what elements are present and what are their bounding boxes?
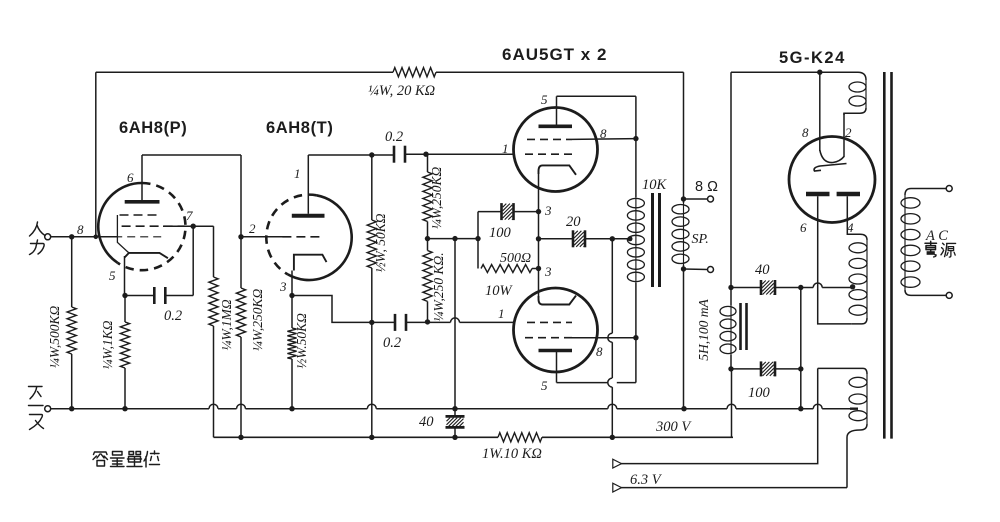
wire T1 primary bottom (635, 283, 637, 338)
svg-text:A C: A C (925, 228, 948, 244)
tube U2 grid dashes (282, 236, 320, 238)
svg-text:300 V: 300 V (655, 419, 692, 435)
svg-text:8: 8 (600, 126, 607, 141)
svg-text:¼W,1KΩ: ¼W,1KΩ (100, 320, 115, 369)
node U2 cathode (289, 293, 294, 298)
terminal AC bottom (946, 292, 952, 298)
tube U1 grid1 dashes (120, 214, 158, 216)
wire C4 right lead (514, 211, 539, 213)
tube V1 plate bar (539, 125, 573, 129)
resistor R-NFB 20K (393, 68, 436, 77)
wire U1 pin5 lead (124, 256, 126, 296)
coil T2 heater winding (818, 368, 867, 374)
node U2 grid junction (238, 234, 243, 239)
svg-text:0.2: 0.2 (164, 308, 182, 324)
wire heater 6.3V line2 (621, 487, 847, 489)
wire R6 leads (427, 239, 429, 251)
wire B+ rail 300V (214, 436, 499, 438)
tube V2 grid2 dashes (525, 337, 572, 339)
arrow 6.3V line1 (613, 459, 622, 468)
wire R5 leads (427, 154, 429, 172)
wire V3 pin6 lead (818, 196, 852, 324)
tube U1 grid bracket (117, 215, 128, 253)
tube V3 plate left (806, 192, 830, 197)
wire bias bracket (477, 212, 479, 269)
svg-text:3: 3 (544, 203, 552, 218)
resistor R3 50K cathode (287, 328, 296, 359)
node B+ CT drop (610, 236, 615, 241)
tube U1 plate bar (125, 200, 160, 204)
capacitor C5 20uF (572, 230, 575, 247)
tube U1 cathode (125, 253, 168, 258)
resistor R-load 250K (236, 288, 245, 337)
svg-text:100: 100 (489, 225, 512, 241)
svg-text:5H,100 mA: 5H,100 mA (696, 299, 711, 361)
tube U1 envelope dashed arc (118, 183, 186, 270)
wire V3 pin8 riser (819, 72, 821, 151)
svg-text:6: 6 (800, 220, 807, 235)
capacitor C6 40uF (760, 280, 763, 295)
wire filter common gnd (800, 288, 802, 409)
tube U2 cathode (294, 255, 327, 271)
svg-text:1W.10 KΩ: 1W.10 KΩ (482, 446, 542, 462)
svg-text:8: 8 (802, 125, 809, 140)
node gnd filter (798, 406, 803, 411)
node feedback input junction (94, 235, 99, 240)
capacitor C7 100uF (760, 361, 763, 376)
wire pin7 to bypass cap (192, 226, 194, 295)
coil T1 secondary (683, 203, 685, 265)
wire U2 pin1 riser (307, 155, 309, 214)
wire T1 secondary leads (683, 199, 685, 203)
node gnd 50K (289, 406, 294, 411)
svg-text:2: 2 (845, 125, 852, 140)
label ground kanji アース (29, 387, 43, 399)
wire V3 pin2 riser (843, 113, 845, 157)
tube V2 cathode (539, 296, 577, 305)
wire bottom coupler (372, 321, 395, 323)
wire R2 top lead (124, 296, 126, 323)
svg-text:1: 1 (498, 306, 505, 321)
wire choke out to B+ rail (730, 369, 733, 437)
capacitor C2 0.2 top coupler (393, 146, 396, 163)
wire U1 pin6 to U2 grid (141, 155, 143, 200)
node T1 center tap (628, 236, 633, 241)
tube V3 envelope (789, 137, 875, 223)
resistor R2 1K cathode (120, 322, 129, 368)
node pin8 V3 (817, 70, 822, 75)
tube V3 plate right (837, 192, 860, 197)
svg-text:5: 5 (541, 378, 548, 393)
terminal input (45, 234, 51, 240)
svg-text:10K: 10K (642, 177, 668, 193)
capacitor C4 100uF cathode (500, 203, 503, 220)
wire filament top rail (731, 71, 820, 73)
svg-text:½W, 50KΩ: ½W, 50KΩ (373, 213, 388, 272)
node follower at B+ (369, 435, 374, 440)
wire C7 row (731, 368, 761, 370)
wire cathode to C1 (125, 295, 154, 297)
node C7 neg (798, 366, 803, 371)
node bias bracket (475, 236, 480, 241)
svg-text:¼W,1MΩ: ¼W,1MΩ (219, 299, 234, 351)
node choke out (728, 366, 733, 371)
node U1 cathode (122, 293, 127, 298)
svg-text:6.3 V: 6.3 V (630, 472, 663, 488)
svg-text:20: 20 (566, 214, 581, 230)
terminal speaker minus (708, 267, 714, 273)
node coupler join (369, 320, 374, 325)
node C8 at B+ (452, 435, 457, 440)
resistor R6 250K lower (423, 251, 432, 302)
wire cathode common (538, 174, 540, 298)
tube V1 grid2 dashes (525, 153, 572, 155)
wire R4 bottom lead (371, 268, 373, 322)
wire speaker top (684, 198, 708, 200)
svg-text:5G-K24: 5G-K24 (779, 49, 846, 67)
node pin7 (191, 224, 196, 229)
wire V3 pin4 lead (847, 196, 860, 234)
node k3 (536, 266, 541, 271)
node U2 plate junction (369, 152, 374, 157)
wire feedback left drop (95, 72, 97, 237)
wire ground rail (51, 408, 209, 410)
svg-text:¼W,250KΩ: ¼W,250KΩ (250, 289, 265, 352)
tube V1 cathode (539, 165, 577, 174)
core T2 (883, 72, 886, 439)
wire rectifier DC drop (730, 72, 732, 287)
svg-text:1: 1 (294, 166, 301, 181)
tube V1 grid1 dashes (527, 138, 572, 140)
wire C8 leads (454, 409, 456, 417)
node HV tap (850, 284, 855, 289)
wire speaker gnd (683, 269, 685, 409)
tube V2 envelope (514, 288, 598, 372)
wire input to grid (51, 236, 118, 238)
wire R3 bottom lead (291, 359, 293, 409)
svg-text:¼W, 20 KΩ: ¼W, 20 KΩ (368, 83, 435, 99)
resistor R1 500K grid (67, 307, 76, 354)
tube U1 envelope solid arc (98, 183, 142, 263)
tube U2 envelope solid arc (288, 195, 352, 280)
node speaker top (681, 196, 686, 201)
node k1 (536, 209, 541, 214)
svg-text:8: 8 (77, 222, 84, 237)
svg-text:5: 5 (541, 92, 548, 107)
wire U2 pin3 lead (291, 271, 293, 296)
wire R7 right lead (532, 268, 539, 270)
node DC out (728, 285, 733, 290)
svg-text:¼W,250 KΩ.: ¼W,250 KΩ. (431, 252, 446, 321)
wire C5 right lead (585, 238, 629, 240)
tube U1 grid3 dashes (114, 236, 161, 238)
svg-text:0.2: 0.2 (383, 335, 401, 351)
capacitor C1 0.2 bypass (153, 287, 156, 304)
svg-text:8 Ω: 8 Ω (695, 179, 718, 195)
terminal AC top (946, 186, 952, 192)
wire V2 pin8 lead (572, 337, 636, 339)
core L1 (739, 303, 742, 350)
wire heater 6.3V line1 (621, 368, 818, 463)
coil T2 HV winding (860, 234, 867, 240)
coil L1 choke (730, 305, 732, 355)
coil T1 primary (635, 197, 637, 283)
core T1 (651, 193, 654, 287)
wire V1 pin8 lead (572, 138, 636, 141)
node C6 neg (798, 285, 803, 290)
svg-text:6AH8(P): 6AH8(P) (119, 119, 187, 137)
svg-text:¼W,250KΩ: ¼W,250KΩ (429, 167, 444, 230)
node gnd speaker (681, 406, 686, 411)
resistor R7 500 ohm 10W (481, 265, 532, 273)
wire top coupler (372, 154, 394, 156)
terminal ground (45, 406, 51, 412)
wire speaker bottom (684, 268, 708, 271)
node gnd 1K (122, 406, 127, 411)
wire heater CT to gnd (850, 408, 858, 410)
node grid divider mid (425, 236, 430, 241)
wire screen 1M to B+ (213, 226, 215, 277)
svg-text:SP.: SP. (692, 232, 709, 247)
wire plate load 250K (240, 237, 242, 288)
capacitor C3 0.2 bottom coupler (394, 314, 397, 331)
node gnd 500K (69, 406, 74, 411)
capacitor C8 40uF main filter (446, 415, 465, 418)
svg-text:6: 6 (127, 170, 134, 185)
node input junction (69, 234, 74, 239)
svg-text:7: 7 (186, 208, 193, 223)
svg-text:5: 5 (109, 268, 116, 283)
svg-text:0.2: 0.2 (385, 129, 403, 145)
arrow 6.3V line2 (613, 483, 622, 492)
wire bias rail (428, 238, 479, 240)
node pin8 V1 (633, 136, 638, 141)
resistor R5 250K upper (423, 172, 432, 222)
node B+ rail join (610, 435, 615, 440)
node gnd bias (452, 406, 457, 411)
coil T2 AC primary (905, 189, 949, 196)
terminal speaker plus (708, 196, 714, 202)
wire R2 bottom lead (124, 368, 126, 409)
svg-text:6AU5GT x 2: 6AU5GT x 2 (502, 45, 607, 64)
wire R4 top lead (371, 155, 373, 220)
svg-text:100: 100 (748, 385, 771, 401)
wire U2 pin2 lead (241, 236, 284, 238)
tube U1 grid2 dashes (122, 225, 185, 227)
wire C5 left lead (539, 238, 574, 240)
label input kanji 入力 (30, 222, 46, 236)
tube V2 grid1 dashes (527, 321, 572, 323)
wire U1 pin7 lead (163, 225, 214, 227)
label capacity kanji 容量單位 (93, 452, 108, 466)
wire CT feed to B+ rail (611, 239, 613, 333)
node speaker bottom (681, 266, 686, 271)
node k2 (536, 236, 541, 241)
svg-text:10W: 10W (485, 283, 514, 299)
svg-text:3: 3 (544, 264, 552, 279)
wire V1 pin5 route (556, 96, 558, 124)
resistor R4 50K follower (367, 220, 376, 268)
wire V2 pin5 route (556, 352, 558, 383)
wire R1 bottom lead (71, 354, 73, 409)
wire feedback top (96, 71, 393, 73)
wire C4 left lead (478, 211, 502, 213)
node coupler bottom (425, 319, 430, 324)
svg-text:3: 3 (279, 279, 287, 294)
svg-text:6AH8(T): 6AH8(T) (266, 119, 333, 137)
tube V2 plate bar (539, 349, 573, 353)
wire U2 cathode to couplers (292, 296, 372, 323)
wire R3 top lead (291, 296, 293, 329)
svg-text:500Ω: 500Ω (500, 251, 531, 266)
svg-text:8: 8 (596, 344, 603, 359)
svg-text:2: 2 (249, 221, 256, 236)
label AC kanji 電源 (925, 241, 937, 245)
node 250K at B+ (238, 435, 243, 440)
svg-text:40: 40 (419, 414, 434, 430)
svg-text:1: 1 (502, 141, 509, 156)
node coupler top right (423, 152, 428, 157)
resistor R-drop 10K 1W (498, 433, 542, 442)
tube U2 plate bar (292, 214, 325, 218)
wire bias to ground (454, 239, 456, 409)
wire T1 primary top (635, 139, 637, 197)
wire choke bottom lead (730, 355, 732, 369)
node bias gnd drop (452, 236, 457, 241)
tube V3 filament (820, 150, 844, 163)
coil T2 5V winding (858, 72, 866, 80)
wire follower to B+ (371, 322, 373, 437)
wire C6 row (731, 287, 761, 289)
resistor R-screen 1MΩ (209, 277, 218, 326)
svg-text:½W.50KΩ: ½W.50KΩ (294, 313, 309, 369)
tube V1 envelope (514, 108, 598, 192)
wire R1 top lead (71, 237, 73, 307)
wire feedback right drop (683, 72, 685, 199)
svg-text:40: 40 (755, 262, 770, 278)
tube U2 envelope dashed arc (266, 195, 316, 275)
node pin8 V2 (633, 335, 638, 340)
wire choke top lead (730, 288, 732, 306)
svg-text:¼W,500KΩ: ¼W,500KΩ (47, 306, 62, 369)
svg-text:4: 4 (847, 220, 854, 235)
